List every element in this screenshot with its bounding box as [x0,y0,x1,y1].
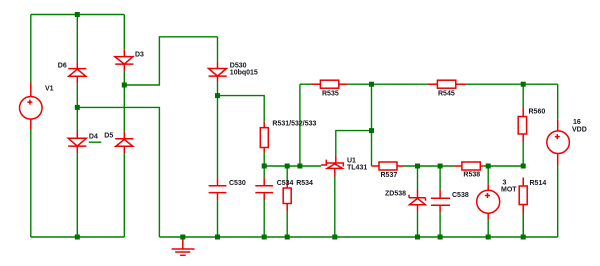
svg-text:R538: R538 [463,172,480,179]
svg-text:R534: R534 [296,180,313,187]
svg-text:R560: R560 [529,109,546,116]
svg-text:C530: C530 [229,180,246,187]
svg-text:10bq015: 10bq015 [230,70,258,77]
svg-text:TL431: TL431 [347,165,367,172]
svg-text:R514: R514 [530,180,547,187]
svg-text:ZD538: ZD538 [385,190,406,197]
svg-text:C534: C534 [277,180,294,187]
svg-text:VDD: VDD [572,126,587,133]
svg-text:D3: D3 [135,51,144,58]
svg-text:D530: D530 [230,63,247,70]
svg-text:U1: U1 [347,158,356,165]
svg-text:R531/532/533: R531/532/533 [272,120,316,127]
svg-text:D6: D6 [58,62,67,69]
svg-text:D5: D5 [104,132,113,139]
svg-text:16: 16 [573,119,581,126]
svg-text:R535: R535 [322,90,339,97]
svg-text:R545: R545 [438,90,455,97]
svg-text:D4: D4 [89,133,98,140]
svg-text:MOT: MOT [501,186,517,193]
svg-text:V1: V1 [45,86,54,93]
svg-text:C538: C538 [452,192,469,199]
svg-text:R537: R537 [381,172,398,179]
